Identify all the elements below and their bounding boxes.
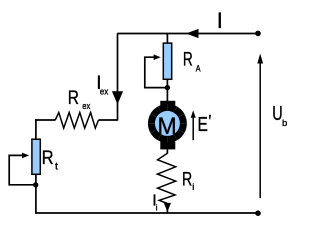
svg-text:R: R [183,48,193,70]
wire top horizontal [117,33,258,35]
motor M [148,101,187,150]
svg-text:R: R [182,169,192,191]
svg-text:i: i [156,204,158,213]
wire motor to Ri [166,149,168,154]
wire RA bottom stub [166,80,168,102]
resistor Rt body [32,139,40,174]
svg-text:I: I [217,8,223,33]
svg-text:ex: ex [100,87,109,98]
motor rotor [155,111,180,136]
wire left down to Rt [35,119,37,139]
svg-text:b: b [282,118,287,129]
voltage arrow Ub [259,62,261,198]
RA adjustment arrowhead [154,54,161,60]
antialias helper [0,0,1,1]
motor commutator ticks [148,104,187,143]
svg-text:R: R [68,87,79,109]
wire left vertical from top [117,34,119,121]
svg-text:M: M [158,113,177,140]
wire Rex left stub [35,119,56,121]
wire bottom horizontal [35,212,258,214]
svg-text:E: E [198,114,208,136]
node top right [255,31,261,37]
wire Ri to bottom [166,203,168,213]
current arrowhead Iex [112,91,123,104]
wire Rex right stub [99,119,118,121]
emf arrow E' [192,117,194,141]
node bottom right [255,210,261,216]
Rt adjustment arrowhead [22,153,29,159]
svg-text:i: i [192,182,194,192]
RA adjustment tap wire [145,57,168,87]
wire RA top stub [166,34,168,45]
svg-text:A: A [196,64,201,74]
node below RA [165,85,170,90]
svg-text:t: t [55,160,58,172]
current arrow I [186,29,199,38]
svg-text:ex: ex [82,101,90,111]
motor terminal top [160,101,175,109]
svg-text:R: R [42,147,54,169]
resistor Ri zigzag [157,153,175,203]
resistor RA body [163,43,171,79]
Rt adjustment tap wire [9,155,36,184]
current arrowhead Ii [164,203,171,212]
motor terminal bottom [160,141,175,149]
resistor Rex zigzag [55,113,98,129]
node below Rt [33,182,38,187]
motor stator ring [148,104,187,143]
wire Rt bottom stub [35,175,37,214]
